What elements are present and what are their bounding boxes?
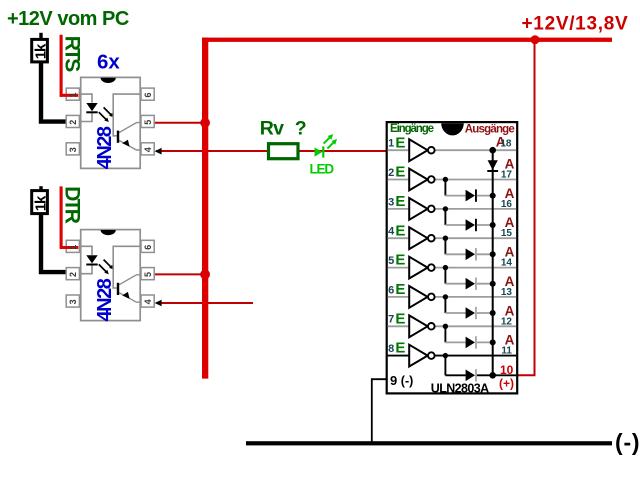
diode channel 7	[466, 337, 475, 349]
svg-text:13: 13	[501, 287, 513, 298]
LED diode symbol	[86, 255, 97, 263]
ULN channel 8 input line	[388, 355, 517, 357]
wire stub channel 7	[444, 326, 446, 342]
node stub junction channel 3	[443, 206, 448, 211]
LED diode internal wiring	[81, 246, 92, 255]
wire +12V bus vertical	[202, 38, 208, 379]
node bus junction diode 4	[490, 251, 496, 257]
svg-text:7: 7	[388, 314, 394, 326]
diode channel 4	[466, 249, 475, 261]
ULN channel 8 inverter	[409, 345, 427, 367]
pin 6	[141, 88, 154, 100]
wire ULN pin10 to +12V rail	[517, 41, 535, 375]
wire resistor R2 top lead	[39, 186, 42, 192]
pin 1	[66, 240, 79, 252]
transistor base bar	[117, 131, 119, 143]
node junction dot opto1 pin5 to bus	[200, 118, 210, 128]
wire stub channel 3	[444, 209, 446, 225]
node stub junction channel 5	[443, 265, 448, 270]
arrow at opto1 pin4	[155, 148, 162, 155]
ULN channel 5 inverter	[409, 257, 427, 279]
svg-text:E: E	[395, 340, 405, 357]
pin 3	[66, 143, 79, 155]
ULN channel 4 inverter	[409, 227, 427, 249]
diode channel 8	[466, 370, 475, 382]
ULN channel 6 inverter	[409, 286, 427, 308]
node bus junction diode 7	[490, 339, 496, 345]
svg-text:12: 12	[501, 316, 513, 327]
ULN channel 1 inverter	[409, 139, 427, 161]
ULN channel 4 input line	[388, 237, 517, 239]
wire stub channel 2	[444, 180, 446, 196]
svg-text:15: 15	[501, 228, 513, 239]
svg-text:14: 14	[501, 258, 513, 269]
pin 5	[141, 115, 154, 127]
pin 1	[66, 88, 79, 100]
svg-text:2: 2	[388, 167, 394, 179]
node junction dot opto2 pin5 to bus	[200, 270, 210, 280]
body	[81, 77, 141, 168]
LED diode symbol	[86, 103, 97, 111]
node stub junction channel 2	[443, 177, 448, 182]
ULN channel 7 input line	[388, 325, 517, 327]
diode channel 1 (vertical, to bus)	[488, 160, 498, 170]
node junction dot +12V/13,8V	[531, 35, 540, 44]
body	[387, 122, 518, 393]
svg-text:1: 1	[388, 138, 394, 150]
wire ULN common bus vertical	[492, 150, 494, 375]
arrow at opto2 pin4	[155, 300, 162, 307]
diode channel 6	[466, 307, 475, 319]
node bus junction diode 6	[490, 310, 496, 316]
node stub junction channel 4	[443, 236, 448, 241]
transistor emitter arrow	[122, 140, 129, 147]
svg-text:E: E	[395, 310, 405, 327]
pin 4	[141, 295, 154, 307]
ULN channel 1 input line	[388, 149, 517, 151]
ULN channel 2 inverter	[409, 169, 427, 191]
svg-text:E: E	[395, 222, 405, 239]
ULN channel 2 input line	[388, 179, 517, 181]
svg-text:E: E	[395, 134, 405, 151]
node bus junction diode 8	[490, 372, 496, 378]
ULN channel 3 input line	[388, 208, 517, 210]
pin 2	[66, 268, 79, 280]
svg-text:18: 18	[500, 138, 512, 149]
wire ULN pin10 row	[493, 374, 517, 376]
wire opto1 pin4 to ULN input 1	[156, 150, 387, 152]
node bus junction diode 2	[490, 193, 496, 199]
diode channel 3	[466, 219, 475, 231]
optocoupler U2 4N28	[60, 230, 154, 321]
node stub junction channel 6	[443, 294, 448, 299]
wire ULN pin9 to ground line	[372, 379, 387, 444]
ULN channel 7 inverter	[409, 315, 427, 337]
node ULN bus junction row 1	[489, 147, 496, 154]
pin 3	[66, 295, 79, 307]
node stub junction channel 8	[443, 353, 448, 358]
pin 2	[66, 115, 79, 127]
resistor Rv	[269, 144, 299, 159]
svg-text:E: E	[395, 193, 405, 210]
transistor internal wiring	[113, 246, 141, 288]
LED emission arrows	[99, 264, 106, 271]
resistor R1 1k	[32, 39, 48, 62]
wire opto1 pin5 to bus	[154, 122, 203, 124]
wire stub channel 4	[444, 238, 446, 254]
svg-text:E: E	[395, 281, 405, 298]
notch	[441, 123, 464, 135]
wire opto2 pin4 stub	[157, 302, 253, 304]
svg-text:E: E	[395, 252, 405, 269]
pin 5	[141, 268, 154, 280]
node stub junction channel 7	[443, 324, 448, 329]
transistor internal wiring	[113, 94, 141, 136]
wire RTS (red) to opto1 pin1	[60, 35, 64, 96]
svg-text:16: 16	[501, 199, 513, 210]
svg-text:4: 4	[388, 226, 395, 238]
wire resistor R1 bottom lead to opto1 pin2	[41, 61, 67, 122]
LED emission arrows	[99, 112, 106, 119]
IC U3 ULN2803A	[387, 122, 518, 395]
wire resistor R2 bottom lead to opto2 pin2	[41, 212, 67, 272]
node bus junction diode 3	[490, 222, 496, 228]
wire +12V bus horizontal top	[202, 38, 612, 42]
pin 6	[141, 240, 154, 252]
LED diode internal wiring	[81, 94, 92, 103]
wire resistor R1 top lead	[39, 33, 42, 40]
resistor R2 1k	[32, 191, 48, 214]
wire stub channel 8	[444, 356, 446, 376]
svg-text:3: 3	[388, 196, 394, 208]
ULN channel 3 inverter	[409, 198, 427, 220]
node bus junction pin10	[489, 372, 496, 379]
svg-text:E: E	[395, 164, 405, 181]
body	[81, 230, 141, 321]
svg-text:11: 11	[501, 346, 512, 357]
diode channel 5	[466, 278, 475, 290]
svg-text:6: 6	[388, 284, 394, 296]
wire DTR (red) to opto2 pin1	[60, 186, 64, 247]
svg-text:17: 17	[501, 170, 513, 181]
LED D1	[315, 147, 323, 156]
ULN channel 5 input line	[388, 267, 517, 269]
ULN channel 6 input line	[388, 296, 517, 298]
wire stub channel 5	[444, 268, 446, 284]
pin 4	[141, 143, 154, 155]
wire ground line (-)	[246, 441, 612, 445]
optocoupler U1 4N28	[60, 77, 154, 168]
transistor base bar	[117, 283, 119, 295]
transistor emitter arrow	[122, 292, 129, 299]
node bus junction diode 5	[490, 281, 496, 287]
svg-text:8: 8	[388, 343, 394, 355]
wire opto2 pin5 to bus	[154, 273, 203, 275]
svg-text:5: 5	[388, 255, 394, 267]
diode channel 2	[466, 190, 475, 202]
wire stub channel 6	[444, 297, 446, 313]
